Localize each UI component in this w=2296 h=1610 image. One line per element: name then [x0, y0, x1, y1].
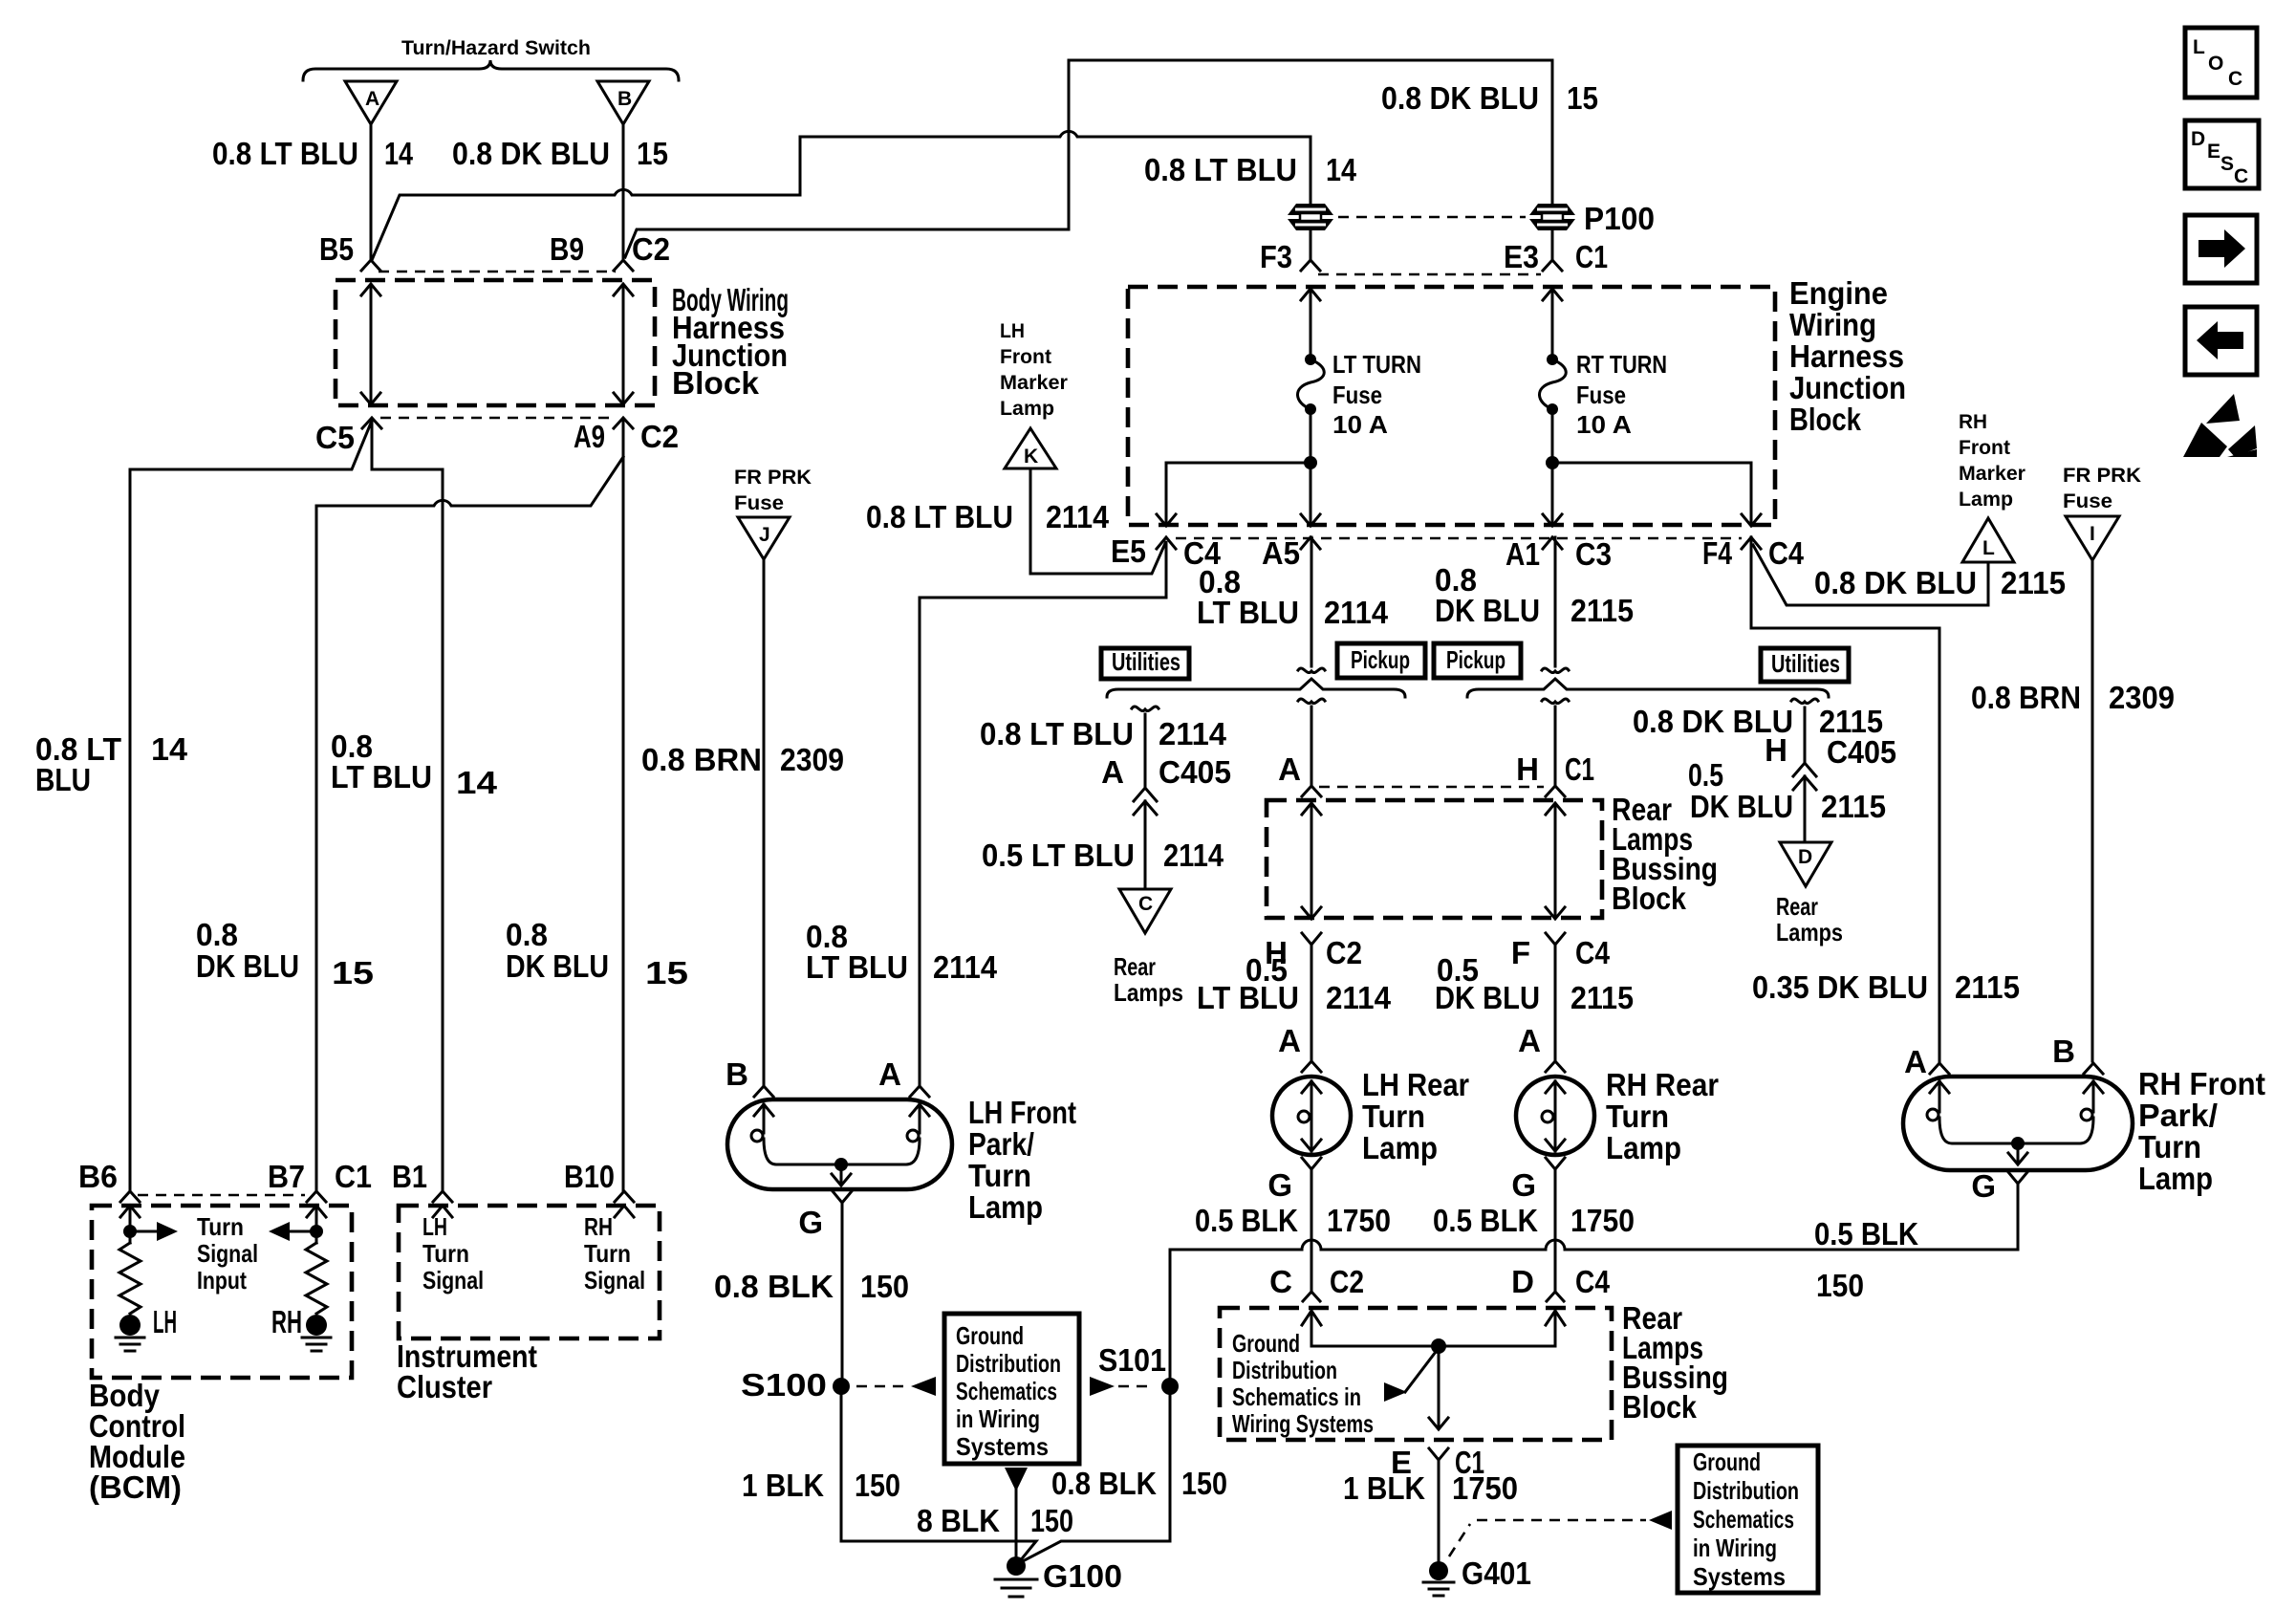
- svg-text:0.8 BLK: 0.8 BLK: [1051, 1466, 1157, 1501]
- svg-text:D: D: [1511, 1264, 1534, 1299]
- svg-text:Ground: Ground: [956, 1321, 1024, 1350]
- svg-text:Fuse: Fuse: [2063, 490, 2112, 512]
- svg-text:150: 150: [1816, 1268, 1864, 1303]
- svg-text:F4: F4: [1702, 535, 1733, 571]
- svg-text:Rear: Rear: [1776, 892, 1818, 921]
- svg-text:0.5 LT BLU: 0.5 LT BLU: [982, 838, 1135, 873]
- svg-text:Lamp: Lamp: [2138, 1161, 2213, 1196]
- svg-text:0.8 BRN: 0.8 BRN: [1971, 680, 2081, 715]
- svg-text:0.8 DK BLU: 0.8 DK BLU: [1814, 565, 1977, 600]
- svg-text:RH: RH: [271, 1304, 302, 1339]
- svg-text:B1: B1: [392, 1159, 427, 1194]
- svg-text:C4: C4: [1768, 535, 1805, 571]
- svg-text:0.35 DK BLU: 0.35 DK BLU: [1752, 969, 1928, 1005]
- svg-text:Park/: Park/: [2138, 1098, 2218, 1133]
- svg-text:A: A: [1904, 1044, 1927, 1079]
- svg-text:Turn/Hazard Switch: Turn/Hazard Switch: [401, 37, 591, 59]
- svg-text:LT TURN: LT TURN: [1332, 350, 1421, 379]
- svg-text:Front: Front: [1959, 437, 2010, 459]
- svg-text:A9: A9: [574, 419, 605, 454]
- svg-text:LH: LH: [153, 1304, 177, 1339]
- svg-text:Turn: Turn: [584, 1239, 631, 1268]
- svg-text:RH Front: RH Front: [2138, 1066, 2265, 1101]
- svg-text:B: B: [2052, 1033, 2075, 1069]
- svg-text:0.8 BLK: 0.8 BLK: [714, 1269, 834, 1304]
- svg-text:S101: S101: [1098, 1342, 1166, 1378]
- svg-text:Input: Input: [197, 1266, 247, 1295]
- svg-text:C1: C1: [1575, 239, 1608, 274]
- svg-text:Park/: Park/: [968, 1126, 1034, 1162]
- svg-text:LT BLU: LT BLU: [1197, 980, 1299, 1015]
- svg-text:C4: C4: [1575, 1264, 1611, 1299]
- svg-text:Signal: Signal: [422, 1266, 484, 1295]
- svg-text:Systems: Systems: [1693, 1562, 1786, 1591]
- svg-text:1 BLK: 1 BLK: [742, 1468, 824, 1503]
- svg-text:Lamp: Lamp: [1362, 1130, 1438, 1165]
- svg-text:1750: 1750: [1570, 1203, 1635, 1238]
- svg-text:2115: 2115: [1570, 593, 1634, 628]
- svg-text:15: 15: [637, 136, 668, 171]
- svg-text:2114: 2114: [1326, 980, 1392, 1015]
- svg-text:14: 14: [456, 765, 498, 800]
- svg-text:Fuse: Fuse: [1576, 381, 1626, 409]
- svg-text:1750: 1750: [1452, 1470, 1518, 1506]
- svg-text:C2: C2: [1330, 1264, 1364, 1299]
- svg-text:B10: B10: [564, 1159, 615, 1194]
- svg-text:in Wiring: in Wiring: [1693, 1534, 1777, 1562]
- svg-text:Block: Block: [1612, 881, 1687, 916]
- svg-text:B5: B5: [319, 231, 354, 267]
- svg-text:Lamp: Lamp: [1000, 398, 1054, 420]
- svg-text:G401: G401: [1462, 1556, 1531, 1591]
- svg-text:C1: C1: [335, 1159, 372, 1194]
- svg-text:Schematics: Schematics: [956, 1377, 1057, 1405]
- svg-text:2115: 2115: [1821, 789, 1886, 824]
- svg-text:Turn: Turn: [422, 1239, 469, 1268]
- svg-text:FR PRK: FR PRK: [2063, 465, 2141, 487]
- svg-text:G100: G100: [1043, 1558, 1122, 1594]
- svg-text:J: J: [759, 524, 770, 546]
- svg-text:C: C: [1269, 1264, 1292, 1299]
- svg-text:RH: RH: [584, 1212, 613, 1241]
- svg-text:Lamps: Lamps: [1114, 978, 1183, 1007]
- svg-text:DK BLU: DK BLU: [1690, 789, 1793, 824]
- svg-text:10 A: 10 A: [1332, 410, 1388, 439]
- svg-text:Schematics: Schematics: [1693, 1505, 1794, 1534]
- svg-text:RT TURN: RT TURN: [1576, 350, 1667, 379]
- svg-text:Block: Block: [672, 365, 760, 401]
- svg-text:A: A: [1518, 1023, 1541, 1058]
- svg-text:14: 14: [151, 731, 188, 767]
- svg-text:Pickup: Pickup: [1446, 645, 1505, 674]
- svg-text:G: G: [1267, 1167, 1292, 1203]
- svg-text:0.8 LT BLU: 0.8 LT BLU: [212, 136, 358, 171]
- svg-text:Wiring Systems: Wiring Systems: [1232, 1409, 1374, 1438]
- svg-text:Ground: Ground: [1693, 1447, 1761, 1476]
- svg-text:H: H: [1765, 732, 1787, 768]
- svg-text:Block: Block: [1789, 402, 1862, 437]
- svg-text:Signal: Signal: [197, 1239, 258, 1268]
- svg-text:10 A: 10 A: [1576, 410, 1632, 439]
- svg-text:Rear: Rear: [1114, 952, 1156, 981]
- svg-text:0.5 BLK: 0.5 BLK: [1195, 1203, 1298, 1238]
- svg-text:0.8 LT BLU: 0.8 LT BLU: [866, 499, 1013, 534]
- svg-text:Fuse: Fuse: [1332, 381, 1382, 409]
- svg-text:C3: C3: [1575, 536, 1612, 572]
- svg-text:8 BLK: 8 BLK: [917, 1503, 1000, 1538]
- svg-text:LT BLU: LT BLU: [331, 759, 432, 794]
- svg-text:RH: RH: [1959, 411, 1987, 433]
- svg-text:0.8 LT BLU: 0.8 LT BLU: [1144, 152, 1297, 187]
- svg-text:DK BLU: DK BLU: [1435, 980, 1540, 1015]
- svg-text:G: G: [798, 1205, 823, 1240]
- svg-text:K: K: [1024, 446, 1038, 468]
- svg-text:Schematics in: Schematics in: [1232, 1382, 1361, 1411]
- svg-text:L: L: [2193, 36, 2205, 58]
- svg-text:LH Rear: LH Rear: [1362, 1067, 1469, 1102]
- svg-text:Turn: Turn: [197, 1212, 244, 1241]
- svg-text:DK BLU: DK BLU: [506, 948, 609, 984]
- svg-text:14: 14: [384, 136, 414, 171]
- svg-text:2114: 2114: [1046, 499, 1110, 534]
- svg-text:F3: F3: [1260, 239, 1292, 274]
- svg-text:A: A: [1278, 751, 1301, 787]
- svg-text:C5: C5: [315, 420, 355, 455]
- svg-text:Wiring: Wiring: [1789, 307, 1876, 342]
- svg-text:Signal: Signal: [584, 1266, 645, 1295]
- svg-text:Block: Block: [1622, 1389, 1698, 1425]
- svg-text:15: 15: [645, 955, 688, 990]
- svg-text:B6: B6: [78, 1159, 118, 1194]
- svg-text:Harness: Harness: [1789, 338, 1904, 374]
- svg-text:Distribution: Distribution: [956, 1349, 1061, 1378]
- svg-text:Cluster: Cluster: [397, 1369, 492, 1404]
- svg-text:2115: 2115: [1570, 980, 1634, 1015]
- svg-text:2115: 2115: [2001, 565, 2066, 600]
- svg-text:Distribution: Distribution: [1693, 1476, 1799, 1505]
- svg-text:2309: 2309: [2109, 680, 2175, 715]
- svg-text:L: L: [1982, 537, 1995, 559]
- svg-text:B9: B9: [550, 231, 584, 267]
- svg-text:Lamp: Lamp: [968, 1189, 1043, 1225]
- svg-text:A: A: [878, 1056, 901, 1092]
- svg-text:0.5: 0.5: [1688, 757, 1723, 793]
- svg-text:2309: 2309: [780, 742, 844, 777]
- svg-text:B: B: [617, 88, 632, 110]
- svg-text:Ground: Ground: [1232, 1329, 1300, 1358]
- svg-text:D: D: [1798, 846, 1812, 868]
- svg-text:Turn: Turn: [2138, 1129, 2201, 1164]
- svg-text:G: G: [1511, 1167, 1536, 1203]
- svg-text:0.8 DK BLU: 0.8 DK BLU: [1381, 80, 1539, 116]
- svg-text:0.8 DK BLU: 0.8 DK BLU: [452, 136, 610, 171]
- svg-text:C: C: [2228, 68, 2242, 90]
- svg-text:in Wiring: in Wiring: [956, 1404, 1040, 1433]
- svg-text:Lamp: Lamp: [1606, 1130, 1681, 1165]
- svg-text:C405: C405: [1159, 754, 1231, 790]
- svg-text:Distribution: Distribution: [1232, 1356, 1337, 1384]
- svg-text:O: O: [2208, 53, 2223, 75]
- svg-text:G: G: [1971, 1168, 1996, 1204]
- svg-text:B7: B7: [268, 1159, 305, 1194]
- svg-text:LH Front: LH Front: [968, 1095, 1076, 1130]
- svg-text:(BCM): (BCM): [89, 1469, 182, 1505]
- svg-text:14: 14: [1326, 152, 1357, 187]
- svg-text:BLU: BLU: [35, 762, 91, 797]
- svg-text:S100: S100: [741, 1367, 827, 1403]
- svg-text:C: C: [1138, 893, 1153, 915]
- svg-text:FR PRK: FR PRK: [734, 467, 812, 489]
- svg-text:C405: C405: [1827, 734, 1896, 770]
- svg-text:1 BLK: 1 BLK: [1343, 1470, 1425, 1506]
- svg-text:C4: C4: [1575, 935, 1611, 970]
- svg-text:0.5 BLK: 0.5 BLK: [1433, 1203, 1538, 1238]
- svg-text:Engine: Engine: [1789, 275, 1888, 311]
- svg-text:150: 150: [1030, 1503, 1073, 1538]
- svg-text:0.8 LT BLU: 0.8 LT BLU: [980, 716, 1134, 751]
- svg-text:0.8: 0.8: [196, 917, 238, 952]
- svg-text:H: H: [1516, 751, 1539, 787]
- svg-text:B: B: [726, 1056, 748, 1092]
- svg-text:Turn: Turn: [1606, 1099, 1669, 1134]
- svg-text:2114: 2114: [1163, 838, 1224, 873]
- svg-text:Turn: Turn: [968, 1158, 1031, 1193]
- svg-text:15: 15: [332, 955, 374, 990]
- svg-text:1750: 1750: [1327, 1203, 1391, 1238]
- svg-text:E5: E5: [1111, 533, 1146, 569]
- svg-text:0.8 BRN: 0.8 BRN: [641, 742, 762, 777]
- svg-text:LT BLU: LT BLU: [806, 949, 908, 985]
- svg-text:2114: 2114: [1324, 595, 1389, 630]
- svg-text:0.8: 0.8: [506, 917, 548, 952]
- svg-text:150: 150: [860, 1269, 909, 1304]
- svg-text:LH: LH: [422, 1212, 447, 1241]
- svg-text:0.5 BLK: 0.5 BLK: [1814, 1216, 1918, 1251]
- svg-text:Systems: Systems: [956, 1432, 1049, 1461]
- svg-text:Utilities: Utilities: [1112, 647, 1180, 676]
- svg-text:Turn: Turn: [1362, 1099, 1425, 1134]
- svg-text:2114: 2114: [933, 949, 998, 985]
- svg-text:C2: C2: [1326, 935, 1362, 970]
- svg-text:A5: A5: [1262, 535, 1300, 571]
- svg-text:P100: P100: [1584, 201, 1655, 236]
- svg-text:LH: LH: [1000, 320, 1025, 342]
- svg-text:DK BLU: DK BLU: [196, 948, 299, 984]
- svg-text:I: I: [2090, 523, 2095, 545]
- svg-text:Pickup: Pickup: [1351, 645, 1410, 674]
- svg-text:150: 150: [855, 1468, 900, 1503]
- svg-text:E: E: [2207, 141, 2220, 163]
- svg-text:A: A: [1278, 1023, 1301, 1058]
- svg-text:15: 15: [1567, 80, 1598, 116]
- svg-text:S: S: [2220, 153, 2234, 175]
- svg-text:C: C: [2234, 165, 2248, 187]
- svg-text:Fuse: Fuse: [734, 492, 784, 514]
- svg-text:A: A: [365, 88, 379, 110]
- svg-text:F: F: [1511, 935, 1530, 970]
- svg-text:150: 150: [1181, 1466, 1227, 1501]
- svg-text:2114: 2114: [1159, 716, 1227, 751]
- svg-text:D: D: [2191, 128, 2205, 150]
- svg-text:Utilities: Utilities: [1771, 649, 1840, 678]
- svg-text:Lamps: Lamps: [1776, 918, 1843, 946]
- svg-text:C2: C2: [632, 231, 670, 267]
- svg-text:Junction: Junction: [1789, 370, 1906, 405]
- svg-text:A1: A1: [1505, 536, 1540, 572]
- svg-text:Marker: Marker: [1959, 463, 2025, 485]
- svg-text:DK BLU: DK BLU: [1435, 593, 1540, 628]
- svg-text:A: A: [1101, 754, 1124, 790]
- svg-text:Lamp: Lamp: [1959, 489, 2013, 511]
- svg-text:RH Rear: RH Rear: [1606, 1067, 1719, 1102]
- svg-text:C1: C1: [1565, 751, 1594, 787]
- svg-text:E3: E3: [1504, 239, 1539, 274]
- svg-text:Front: Front: [1000, 346, 1051, 368]
- svg-text:C2: C2: [640, 419, 679, 454]
- svg-text:Marker: Marker: [1000, 372, 1068, 394]
- svg-text:2115: 2115: [1955, 969, 2020, 1005]
- svg-text:LT BLU: LT BLU: [1197, 595, 1299, 630]
